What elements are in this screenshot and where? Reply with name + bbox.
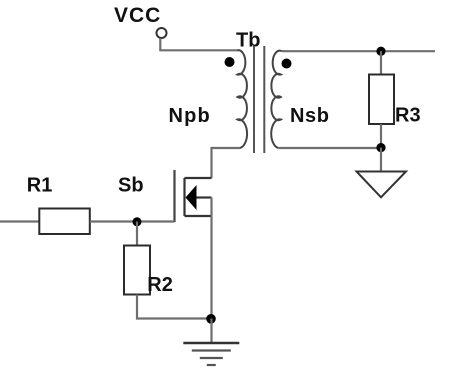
svg-text:Tb: Tb <box>236 29 260 51</box>
ground (triangle) secondary <box>357 172 407 198</box>
wire secondary bottom to junction <box>278 147 381 149</box>
wire left input to R1 <box>0 220 39 222</box>
resistor R2 <box>124 246 150 295</box>
ground (earth) symbol <box>183 343 239 365</box>
wire VCC stub down <box>159 38 161 50</box>
resistor R1 <box>39 209 90 235</box>
transformer T primary winding Npb <box>238 50 248 148</box>
wire junction to R2 <box>136 222 138 246</box>
svg-text:Nsb: Nsb <box>290 105 330 127</box>
svg-text:VCC: VCC <box>114 4 161 27</box>
junction node R3 top <box>376 47 385 56</box>
polarity dot primary <box>225 57 235 67</box>
junction node ground <box>206 314 216 324</box>
transformer T secondary winding Nsb <box>271 51 282 148</box>
polarity dot secondary <box>282 59 292 69</box>
terminal VCC (open circle) <box>157 28 167 38</box>
wire R3 top lead <box>380 51 382 74</box>
source connection <box>185 215 212 217</box>
svg-text:Npb: Npb <box>169 105 211 127</box>
transistor Sb (MOSFET) <box>175 170 212 222</box>
wire secondary top to right <box>282 50 435 52</box>
wire primary bottom to drain <box>212 148 241 178</box>
svg-text:R1: R1 <box>27 175 53 197</box>
junction node Sb <box>133 217 142 226</box>
wire VCC to primary top <box>159 49 238 51</box>
wire junction to ground triangle <box>380 148 382 172</box>
svg-text:Sb: Sb <box>118 175 144 197</box>
drain connection <box>185 177 212 179</box>
body arrow <box>186 185 197 210</box>
resistor R3 <box>369 75 394 125</box>
junction node R3 bottom <box>376 143 385 152</box>
transformer core lines <box>253 46 255 153</box>
wire R3 bottom lead <box>380 124 382 148</box>
gate bar <box>173 170 175 222</box>
channel bar <box>183 178 185 216</box>
body line <box>197 196 212 198</box>
svg-text:R2: R2 <box>147 274 173 296</box>
svg-text:R3: R3 <box>395 105 421 127</box>
wire source down to ground junction <box>210 198 212 319</box>
wire R1 to gate <box>90 220 175 222</box>
wire junction to ground symbol <box>210 319 212 344</box>
wire R2 bottom to ground junction <box>137 295 212 319</box>
